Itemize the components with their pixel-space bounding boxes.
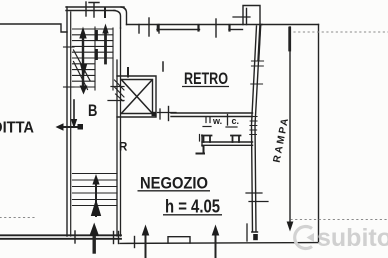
shop arrow 1 (145, 235, 147, 257)
label RETRO (184, 68, 228, 87)
door tick top wall 1 (85, 2, 87, 16)
window double line top (157, 29, 200, 31)
wc tick pair (206, 117, 210, 123)
tick above elevator 1 (127, 68, 129, 77)
stairs divider dark blob 2 (95, 49, 98, 60)
tick c (158, 25, 160, 34)
stairs dark triangle mid (80, 64, 87, 78)
tick bottom wall 2 (113, 232, 115, 244)
landing arrow down along wall (73, 100, 75, 119)
label h 4.05 (165, 197, 220, 217)
svg-text:RETRO: RETRO (184, 68, 228, 87)
ramp arrow head down (287, 222, 294, 232)
tick b crossing (148, 18, 150, 36)
entrance arrow left (62, 126, 80, 128)
wc jamb U left (202, 136, 212, 143)
wc left end vertical (201, 135, 203, 146)
ramp line dark segment (288, 28, 291, 50)
wall bottom thick double (0, 235, 121, 239)
crossing dash wall 2 (108, 100, 124, 102)
window 2 lower line (229, 29, 243, 31)
right wall window rungs lower (250, 117, 257, 135)
wire boundary line top-left (0, 24, 67, 32)
elevator shaft box (117, 76, 156, 117)
wc jamb U right (231, 136, 241, 143)
stairs arrow right flight (104, 33, 107, 63)
tick d crossing (215, 19, 217, 37)
corner inner top (114, 11, 121, 29)
stairwell right wall double (117, 28, 121, 236)
svg-text:w.: w. (212, 116, 222, 126)
window jamb left (157, 25, 159, 31)
corner outer top (121, 7, 127, 25)
stairs divider (94, 27, 96, 90)
tick above elevator 2 (162, 62, 164, 71)
tick bottom wall 3 (118, 232, 120, 244)
crossing dash wall 1 (111, 86, 124, 88)
svg-text:NEGOZIO: NEGOZIO (140, 173, 208, 192)
shop arrow 2 (215, 235, 217, 257)
wall top double (66, 7, 124, 11)
wc small dash (199, 135, 201, 142)
elevator X (122, 80, 153, 113)
svg-text:R: R (119, 142, 128, 154)
stairs arrow left flight (82, 38, 84, 88)
door tick top wall 2 (89, 3, 99, 18)
wc door dash 1 (203, 126, 211, 128)
label DITTA (0, 118, 34, 136)
dotted boundary top right (294, 31, 388, 33)
watermark subito logo (295, 227, 312, 249)
left wall floor dash 2 (64, 86, 75, 88)
svg-text:DITTA: DITTA (0, 118, 34, 136)
svg-text:RAMPA: RAMPA (272, 115, 292, 163)
left wall floor dash 1 (64, 46, 75, 48)
wc partition wall double (202, 142, 253, 145)
stairs lower arrow black head (91, 199, 101, 216)
right wall dash 1 (246, 192, 262, 194)
stair flight right edge line (112, 28, 114, 90)
wall right of building slanted double (252, 25, 261, 233)
chimney tick (233, 16, 250, 18)
dotted boundary bottom left (0, 217, 34, 219)
wc left L step (197, 146, 205, 154)
wall left inner (70, 12, 72, 236)
chimney box top right (243, 6, 260, 25)
dotted boundary bottom right (291, 219, 388, 221)
right wall dash 2 (249, 201, 268, 203)
underline h (163, 214, 222, 216)
elevator door hatch (115, 80, 125, 101)
svg-text:subito: subito (317, 224, 388, 252)
right wall window rungs upper (251, 61, 264, 84)
entrance black square (78, 124, 84, 130)
window 2 jamb (228, 25, 230, 31)
label NEGOZIO (140, 173, 208, 192)
watermark subito arrow (307, 233, 315, 242)
wall ramp right (318, 25, 320, 243)
entrance arrow bottom main (92, 235, 95, 252)
tick a (138, 25, 140, 34)
stairs lower arrow (95, 184, 97, 216)
stairs upper treads left flight (73, 64, 96, 87)
wall left outer (66, 7, 68, 236)
underline RETRO (182, 86, 229, 88)
tick right of elevator (168, 107, 170, 121)
window jamb right (197, 25, 199, 31)
wc divider bar (227, 115, 229, 126)
tick right wall bottom vertical (246, 224, 248, 241)
ramp center line (289, 27, 291, 222)
svg-text:B: B (88, 103, 97, 121)
dash right of elevator (158, 112, 177, 114)
junction dark blob right wall bottom (253, 234, 258, 240)
label B (88, 103, 97, 121)
svg-text:c.: c. (232, 116, 240, 126)
tick door divider (159, 109, 161, 119)
ramp top line (260, 24, 319, 26)
tick shopfront 1 (134, 237, 136, 248)
wall right dark top segment (258, 25, 260, 60)
stairs diagonal cut 1 (74, 50, 91, 81)
wall top y25 run (127, 24, 263, 26)
stairs lower treads (73, 174, 118, 206)
underline NEGOZIO (138, 190, 211, 192)
stairs diagonal cut 2 (74, 62, 88, 90)
wire bottom shopfront line (120, 242, 319, 245)
tick bottom wall 1 (74, 231, 76, 243)
wall retro/negozio divider double (171, 113, 253, 117)
stairs down arrowhead below left flight (80, 86, 88, 95)
door tick top wall 3 (104, 8, 106, 18)
stairs divider dark blob 1 (95, 30, 98, 41)
step rect shopfront (168, 237, 190, 243)
wc door dash 2 (226, 126, 237, 128)
stairs upper treads full (73, 29, 114, 58)
elevator corner blob (152, 112, 157, 116)
